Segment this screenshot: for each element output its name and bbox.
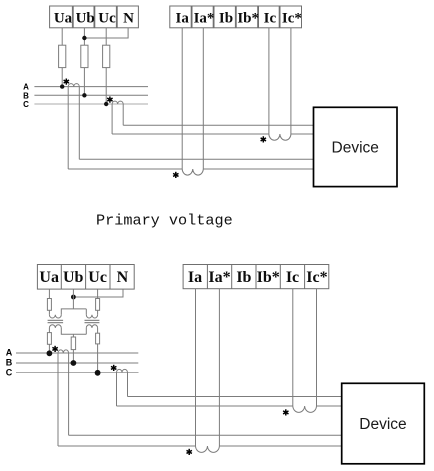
wire Ia drop (bottom)	[195, 289, 197, 446]
svg-text:Ub: Ub	[76, 10, 95, 26]
wire Uc drop (top)	[105, 28, 107, 104]
fuse FUa secondary (bottom)	[47, 299, 51, 311]
svg-text:Ia: Ia	[188, 269, 202, 286]
PT B-C secondary winding	[86, 315, 97, 318]
fuse FUc secondary (bottom)	[96, 299, 100, 311]
coil Ia-Ia* (bottom)	[196, 446, 220, 452]
wire Ic* drop (bottom)	[316, 289, 318, 406]
polarity mark CT-A (bottom)	[52, 346, 57, 352]
wire CT-C star lead (top)	[111, 104, 113, 134]
svg-text:N: N	[117, 269, 129, 286]
wire phase line A (top)	[34, 86, 148, 88]
wire run CT-A star to Ia coil (top)	[68, 168, 313, 170]
wire CT-C return lead (top)	[122, 104, 124, 125]
wire Ia* drop (top)	[202, 28, 204, 169]
fuse FB primary (bottom)	[71, 337, 75, 350]
wire B node leg	[72, 334, 74, 363]
svg-text:Ic: Ic	[286, 269, 299, 286]
svg-text:Ic: Ic	[264, 10, 277, 26]
wire run CT-A star to Ia coil (bottom)	[58, 445, 342, 447]
wire CT-A star lead (bottom)	[57, 353, 59, 446]
polarity mark Ic coil (top)	[261, 136, 266, 142]
voltage terminal block (bottom): cells Ua Ub Uc N	[37, 265, 134, 290]
junction N-Ub (top)	[82, 36, 86, 40]
CT on phase A (top) winding	[68, 84, 79, 87]
svg-text:Ib*: Ib*	[257, 269, 280, 286]
CT on phase C (bottom) winding	[117, 369, 128, 372]
coil Ic-Ic* (top)	[269, 134, 291, 140]
svg-text:Primary voltage: Primary voltage	[96, 212, 233, 230]
wire CT-A return lead (top)	[78, 87, 80, 160]
svg-text:N: N	[123, 10, 134, 26]
svg-text:Ib: Ib	[219, 10, 233, 26]
svg-text:B: B	[6, 358, 13, 368]
wire Ia drop (top)	[181, 28, 183, 169]
voltage terminal block (top): cells Ua Ub Uc N	[50, 6, 139, 28]
core PT A-B	[48, 320, 64, 322]
junction Ua-A (top)	[60, 84, 64, 88]
wire CT-A star lead (top)	[67, 87, 69, 169]
wire phase line C (bottom)	[16, 372, 139, 374]
wire Ic* drop (top)	[290, 28, 292, 134]
fuse FUa (top)	[59, 45, 66, 67]
junction PT-B (bottom)	[71, 360, 77, 366]
polarity mark CT-A (top)	[64, 79, 69, 85]
wire PT B-C secondary left leg	[85, 309, 87, 315]
device box (top)	[314, 107, 398, 186]
svg-text:Ic*: Ic*	[282, 10, 302, 26]
polarity mark Ic coil (bottom)	[283, 409, 288, 415]
coil Ic-Ic* (bottom)	[293, 406, 317, 412]
svg-text:Ic*: Ic*	[306, 269, 327, 286]
svg-text:Ub: Ub	[63, 269, 84, 286]
svg-text:Device: Device	[359, 416, 406, 433]
wire PT A-B secondary right leg	[61, 309, 86, 315]
junction PT-A (bottom)	[47, 350, 53, 356]
svg-text:Uc: Uc	[98, 10, 116, 26]
wire CT-A return lead (bottom)	[68, 353, 70, 435]
wire run CT-A return to device (top)	[79, 158, 313, 160]
fuse FA primary (bottom)	[47, 333, 51, 345]
wire CT-C return lead (bottom)	[127, 373, 129, 397]
wire Ua drop (top)	[61, 28, 63, 87]
svg-text:C: C	[6, 367, 13, 377]
PT A-B primary winding	[49, 325, 61, 328]
svg-text:Ia*: Ia*	[194, 10, 215, 26]
wire phase line B (top)	[34, 94, 148, 96]
core PT B-C	[85, 320, 100, 322]
polarity mark Ia coil (bottom)	[187, 449, 192, 455]
coil Ia-Ia* (top)	[182, 169, 203, 175]
junction N-Ub (bottom)	[71, 295, 76, 300]
device box (bottom)	[342, 383, 425, 464]
fuse FUb (top)	[81, 45, 88, 67]
wire run CT-C return to device (top)	[123, 124, 313, 126]
svg-text:Ua: Ua	[54, 10, 73, 26]
svg-text:Ib*: Ib*	[237, 10, 259, 26]
polarity mark CT-C (top)	[107, 97, 112, 103]
polarity mark CT-C (bottom)	[111, 365, 116, 371]
wire N to Ub (top)	[84, 28, 128, 38]
junction PT-C (bottom)	[95, 370, 101, 376]
PT B-C primary winding	[86, 325, 97, 328]
wire Ic drop (top)	[268, 28, 270, 134]
wire run CT-C star to Ic coil (top)	[112, 133, 313, 135]
svg-text:Device: Device	[332, 139, 379, 156]
wire run CT-C return to device (bottom)	[128, 396, 342, 398]
junction Uc-C (top)	[104, 102, 108, 106]
CT on phase A (bottom) winding	[58, 350, 69, 353]
wire Ic drop (bottom)	[292, 289, 294, 406]
svg-text:Ua: Ua	[39, 269, 59, 286]
svg-text:Uc: Uc	[88, 269, 107, 286]
fuse FUc (top)	[103, 45, 110, 67]
current terminal block (bottom): cells Ia Ia* Ib Ib* Ic Ic*	[183, 265, 329, 289]
wire run CT-A return to device (bottom)	[69, 434, 342, 436]
wire PT B-C primary right leg	[97, 328, 99, 373]
svg-text:Ia*: Ia*	[208, 269, 230, 286]
svg-text:Ib: Ib	[236, 269, 251, 286]
svg-text:Ia: Ia	[176, 10, 190, 26]
PT A-B secondary winding	[49, 315, 61, 318]
polarity mark Ia coil (top)	[173, 172, 178, 178]
wire phase line C (top)	[34, 103, 148, 105]
wire Ia* drop (bottom)	[218, 289, 220, 446]
wire run CT-C star to Ic coil (bottom)	[117, 405, 342, 407]
wire phase line A (bottom)	[16, 352, 138, 354]
svg-text:A: A	[6, 347, 13, 357]
junction Ub-B (top)	[82, 93, 86, 97]
wire Ub drop (bottom)	[72, 289, 74, 309]
wire PT A-B primary right leg	[61, 328, 86, 334]
wire Ub drop (top)	[83, 28, 85, 96]
fuse FC primary (bottom)	[96, 333, 100, 344]
wire Uc drop (bottom)	[97, 289, 99, 315]
wire CT-C star lead (bottom)	[116, 373, 118, 407]
svg-text:A: A	[23, 82, 29, 91]
wire phase line B (bottom)	[16, 362, 138, 364]
wire PT B-C primary left leg	[85, 328, 87, 334]
wire Ua drop (bottom)	[48, 289, 50, 315]
wire PT A-B primary left leg	[48, 328, 50, 353]
svg-text:C: C	[23, 100, 29, 109]
CT on phase C (top) winding	[112, 101, 123, 104]
current terminal block (top): cells Ia Ia* Ib Ib* Ic Ic*	[170, 6, 302, 28]
wire N to Ub (bottom)	[73, 289, 123, 297]
